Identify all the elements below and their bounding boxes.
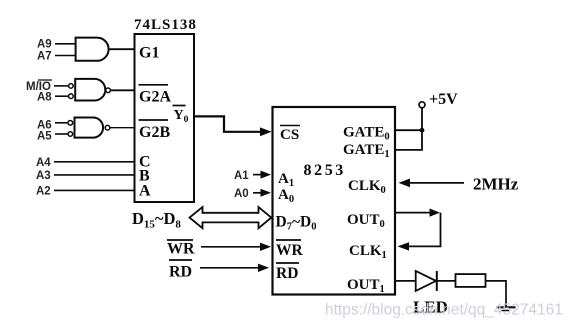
svg-text:D15~D8: D15~D8 (132, 209, 181, 231)
svg-text:A5: A5 (37, 131, 52, 143)
nand-gate U3 (M/IO,A8 -> G2A), input bubbles (69, 84, 74, 89)
svg-text:GATE0: GATE0 (343, 125, 390, 143)
wire GATE1 to +5V rail (396, 108, 422, 150)
wire OUT1 to LED (396, 280, 416, 282)
svg-text:A2: A2 (36, 186, 51, 198)
wire diode to resistor (437, 280, 456, 282)
wire and-gate output to G1 (109, 48, 135, 50)
wire A2 to A (54, 189, 135, 191)
wire nand output to G2A (110, 89, 134, 91)
svg-text:+5V: +5V (429, 91, 458, 108)
svg-text:A: A (139, 183, 151, 200)
wire feedback vertical (408, 213, 441, 247)
wire WR with arrow (201, 246, 261, 248)
svg-text:RD: RD (169, 264, 192, 281)
wire M/IO (54, 85, 69, 87)
wire nand output to G2B (110, 127, 135, 129)
svg-text:WR: WR (167, 241, 195, 258)
svg-text:A1: A1 (234, 170, 249, 182)
svg-text:CS: CS (280, 127, 299, 143)
svg-text:A8: A8 (37, 92, 52, 104)
svg-text:G2B: G2B (139, 124, 170, 141)
svg-text:OUT1: OUT1 (347, 277, 385, 295)
and-gate U2 (A9,A7 -> G1) (76, 38, 109, 61)
svg-text:8253: 8253 (304, 162, 346, 179)
svg-text:74LS138: 74LS138 (134, 17, 197, 33)
wire RD with arrow (200, 267, 259, 269)
svg-text:WR: WR (276, 242, 304, 259)
svg-text:G2A: G2A (139, 89, 171, 106)
svg-text:A0: A0 (234, 188, 249, 200)
svg-text:RD: RD (276, 265, 298, 282)
svg-text:https://blog.csdn.net/qq_45274: https://blog.csdn.net/qq_45274161 (325, 302, 563, 319)
svg-text:OUT0: OUT0 (347, 212, 385, 230)
ground (497, 306, 516, 308)
wire A3 to B (54, 174, 135, 176)
wire A0 with arrow into pin A0 (253, 192, 262, 194)
svg-text:CLK1: CLK1 (349, 243, 387, 261)
wire A4 to C (54, 161, 135, 163)
svg-text:2MHz: 2MHz (473, 175, 519, 194)
svg-text:A7: A7 (37, 51, 52, 63)
svg-text:A3: A3 (36, 170, 51, 182)
wire Y0 to CS (stepped, bold with arrowhead) (194, 116, 262, 131)
chip 74LS138 body (135, 34, 195, 202)
wire 2MHz into CLK0 (409, 182, 464, 184)
+5V terminal circle (419, 102, 425, 108)
wire A7 (55, 55, 76, 57)
wire resistor to ground (486, 281, 507, 307)
wire A5 (55, 133, 68, 135)
diode LED D1 (416, 271, 436, 291)
bus double-arrow D15~D8 to D7~D0 (190, 207, 272, 228)
junction dot GATE0/+5V (420, 128, 425, 133)
wire A1 with arrow into pin A1 (253, 174, 262, 176)
svg-text:D7~D0: D7~D0 (276, 214, 317, 233)
nand-gate U4 (A6,A5 -> G2B), input bubbles (68, 121, 73, 126)
wire GATE0 to +5V rail (396, 129, 422, 131)
wire A8 (55, 95, 69, 97)
svg-text:A4: A4 (36, 157, 51, 169)
resistor R1 (456, 274, 486, 287)
wire OUT0 feedback to CLK1 (right arrow) (396, 212, 431, 214)
wire A9 (55, 43, 76, 45)
svg-text:CLK0: CLK0 (348, 178, 386, 196)
svg-text:G1: G1 (139, 45, 159, 62)
wire A6 (55, 122, 68, 124)
svg-text:GATE1: GATE1 (343, 142, 390, 160)
svg-text:A9: A9 (37, 39, 52, 51)
chip 8253 body (273, 107, 396, 295)
